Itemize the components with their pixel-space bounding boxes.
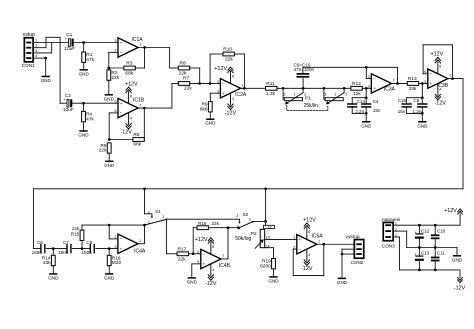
svg-text:GND: GND	[417, 123, 428, 128]
svg-text:GND: GND	[79, 71, 90, 76]
svg-text:CON1: CON1	[22, 63, 35, 68]
svg-text:2: 2	[114, 235, 116, 239]
svg-text:12k: 12k	[353, 91, 361, 97]
svg-text:3: 3	[148, 210, 150, 214]
svg-text:C8: C8	[86, 240, 92, 245]
svg-text:33k: 33k	[43, 260, 51, 266]
svg-text:1: 1	[237, 224, 239, 228]
svg-text:R6: R6	[133, 132, 139, 138]
svg-text:33k: 33k	[409, 86, 417, 92]
svg-text:+12V: +12V	[214, 66, 227, 72]
svg-text:+: +	[120, 246, 123, 251]
svg-text:IC3A: IC3A	[384, 86, 396, 92]
svg-text:1E: 1E	[268, 226, 273, 230]
svg-text:R17: R17	[178, 247, 187, 253]
svg-text:M22: M22	[112, 260, 122, 266]
svg-text:3: 3	[35, 49, 37, 53]
svg-text:5: 5	[115, 100, 117, 104]
svg-text:+: +	[120, 40, 123, 45]
svg-text:CON3: CON3	[382, 243, 395, 248]
svg-text:IC4B: IC4B	[219, 263, 231, 269]
svg-text:2: 2	[217, 80, 219, 84]
svg-text:1: 1	[318, 239, 320, 243]
svg-text:1S: 1S	[266, 236, 271, 240]
svg-text:IC4A: IC4A	[134, 248, 146, 254]
svg-text:GND: GND	[337, 280, 348, 285]
svg-text:C13: C13	[421, 251, 430, 256]
svg-text:+12V: +12V	[303, 217, 316, 223]
svg-text:1: 1	[294, 92, 296, 96]
svg-text:GND: GND	[205, 121, 216, 126]
svg-text:GND: GND	[187, 279, 198, 284]
svg-text:C5: C5	[413, 98, 419, 103]
svg-text:+: +	[299, 237, 302, 242]
svg-text:napajeni: napajeni	[382, 217, 401, 223]
svg-text:-12V: -12V	[434, 101, 446, 107]
svg-text:R18: R18	[198, 221, 207, 226]
svg-text:-12V: -12V	[205, 281, 217, 287]
svg-text:15n: 15n	[373, 108, 381, 113]
svg-text:1: 1	[242, 84, 244, 88]
svg-text:+12V: +12V	[430, 52, 443, 58]
svg-text:1: 1	[393, 79, 395, 83]
svg-text:R12: R12	[352, 81, 361, 87]
svg-text:7: 7	[139, 103, 141, 107]
svg-text:4: 4	[35, 54, 37, 58]
svg-text:2: 2	[368, 75, 370, 79]
svg-text:1: 1	[35, 39, 37, 43]
svg-text:C12: C12	[421, 228, 430, 233]
svg-text:IC1B: IC1B	[133, 97, 145, 103]
svg-text:GND: GND	[104, 163, 115, 168]
svg-text:-12V: -12V	[301, 266, 313, 272]
svg-text:22k: 22k	[111, 75, 119, 81]
svg-text:2.2n: 2.2n	[355, 109, 364, 114]
svg-text:12k: 12k	[72, 226, 80, 231]
svg-text:15n: 15n	[398, 109, 406, 114]
svg-text:8: 8	[308, 230, 310, 234]
svg-text:3: 3	[236, 214, 238, 218]
svg-text:10uF: 10uF	[63, 107, 74, 113]
svg-text:3: 3	[324, 92, 326, 96]
svg-text:GND: GND	[361, 123, 372, 128]
svg-text:+: +	[203, 262, 206, 267]
svg-text:1.2n: 1.2n	[413, 109, 422, 114]
svg-text:3: 3	[114, 245, 116, 249]
svg-text:+12V: +12V	[444, 208, 457, 214]
svg-text:3: 3	[293, 236, 295, 240]
svg-text:C6: C6	[37, 240, 43, 245]
svg-text:vstup: vstup	[23, 32, 36, 38]
svg-text:150n: 150n	[58, 250, 69, 255]
svg-text:R7: R7	[183, 76, 189, 82]
svg-text:IC5A: IC5A	[312, 233, 324, 239]
svg-text:3: 3	[283, 92, 285, 96]
svg-text:R11: R11	[266, 81, 275, 87]
svg-text:22k: 22k	[212, 221, 220, 226]
svg-text:-12V: -12V	[121, 130, 133, 136]
svg-text:vystup: vystup	[346, 234, 360, 240]
svg-text:150n: 150n	[32, 250, 43, 255]
svg-text:4: 4	[439, 87, 441, 91]
svg-text:2: 2	[35, 44, 37, 48]
svg-text:8: 8	[212, 245, 214, 249]
svg-text:GND: GND	[41, 78, 52, 83]
svg-text:1: 1	[139, 239, 141, 243]
svg-text:47k: 47k	[86, 116, 94, 122]
svg-text:C2: C2	[65, 93, 71, 99]
svg-text:3: 3	[115, 39, 117, 43]
svg-text:P2: P2	[251, 231, 257, 237]
svg-text:IC1A: IC1A	[132, 37, 144, 43]
svg-text:+: +	[222, 91, 225, 96]
svg-text:1: 1	[148, 221, 150, 225]
svg-text:4: 4	[212, 268, 214, 272]
svg-text:R3: R3	[126, 61, 132, 67]
svg-text:8200: 8200	[260, 263, 271, 269]
svg-text:−: −	[373, 76, 376, 81]
svg-text:P1: P1	[305, 96, 311, 102]
svg-text:−: −	[120, 111, 123, 116]
svg-text:7: 7	[449, 74, 451, 78]
svg-text:-12V: -12V	[454, 285, 466, 291]
svg-text:4: 4	[232, 97, 234, 101]
svg-text:47n=100n: 47n=100n	[294, 67, 315, 72]
svg-text:2: 2	[345, 92, 347, 96]
svg-text:R15: R15	[71, 231, 80, 236]
svg-text:+12V: +12V	[125, 81, 138, 87]
svg-text:C7: C7	[63, 240, 69, 245]
svg-text:+: +	[120, 101, 123, 106]
svg-text:4: 4	[308, 253, 310, 257]
svg-text:C15: C15	[398, 98, 407, 103]
svg-text:6k8: 6k8	[200, 106, 208, 112]
svg-text:2: 2	[249, 218, 251, 222]
svg-text:50k/log: 50k/log	[235, 236, 251, 242]
svg-text:25k/lin: 25k/lin	[304, 103, 319, 109]
svg-text:C4: C4	[373, 99, 379, 104]
svg-text:22k: 22k	[184, 86, 192, 92]
svg-text:C10: C10	[437, 228, 446, 233]
svg-text:GND: GND	[48, 275, 59, 280]
svg-text:CON2: CON2	[351, 260, 364, 265]
svg-text:S1: S1	[155, 209, 161, 214]
svg-text:7: 7	[222, 254, 224, 258]
svg-text:8: 8	[232, 74, 234, 78]
svg-text:−: −	[299, 247, 302, 252]
svg-text:8: 8	[130, 94, 132, 98]
svg-text:47k: 47k	[86, 57, 94, 63]
svg-text:GND: GND	[104, 96, 115, 101]
svg-text:5: 5	[424, 80, 426, 84]
svg-text:C1: C1	[66, 32, 72, 38]
svg-text:C11: C11	[437, 251, 446, 256]
svg-text:68k: 68k	[133, 141, 141, 147]
svg-text:+12V: +12V	[195, 237, 208, 243]
svg-text:−: −	[120, 237, 123, 242]
svg-text:R8: R8	[180, 61, 186, 67]
svg-text:1.2k: 1.2k	[266, 91, 276, 97]
svg-text:22k: 22k	[225, 57, 233, 63]
svg-text:10uF: 10uF	[64, 46, 75, 52]
svg-text:R10: R10	[223, 47, 232, 53]
svg-text:−: −	[120, 50, 123, 55]
svg-text:-12V: -12V	[225, 110, 237, 116]
svg-text:22k: 22k	[179, 71, 187, 77]
svg-text:150n: 150n	[82, 250, 93, 255]
svg-text:GND: GND	[104, 275, 115, 280]
svg-text:3: 3	[368, 85, 370, 89]
svg-text:−: −	[222, 81, 225, 86]
svg-text:1: 1	[139, 43, 141, 47]
svg-text:IC2A: IC2A	[235, 92, 247, 98]
svg-text:+: +	[373, 86, 376, 91]
svg-text:2: 2	[162, 215, 164, 219]
svg-text:8: 8	[439, 65, 441, 69]
svg-text:C14: C14	[357, 99, 366, 104]
svg-text:4: 4	[130, 117, 132, 121]
svg-text:1: 1	[334, 92, 336, 96]
svg-text:R13: R13	[408, 76, 417, 82]
svg-text:+: +	[430, 81, 433, 86]
svg-text:6: 6	[197, 250, 199, 254]
svg-text:GND: GND	[78, 133, 89, 138]
svg-text:S2: S2	[243, 212, 249, 217]
svg-text:22k: 22k	[178, 256, 186, 262]
svg-text:−: −	[203, 252, 206, 257]
svg-text:GND: GND	[268, 278, 279, 283]
svg-text:22k: 22k	[99, 148, 107, 154]
svg-text:68k: 68k	[125, 71, 133, 77]
svg-text:−: −	[430, 71, 433, 76]
svg-text:GND: GND	[452, 257, 463, 262]
